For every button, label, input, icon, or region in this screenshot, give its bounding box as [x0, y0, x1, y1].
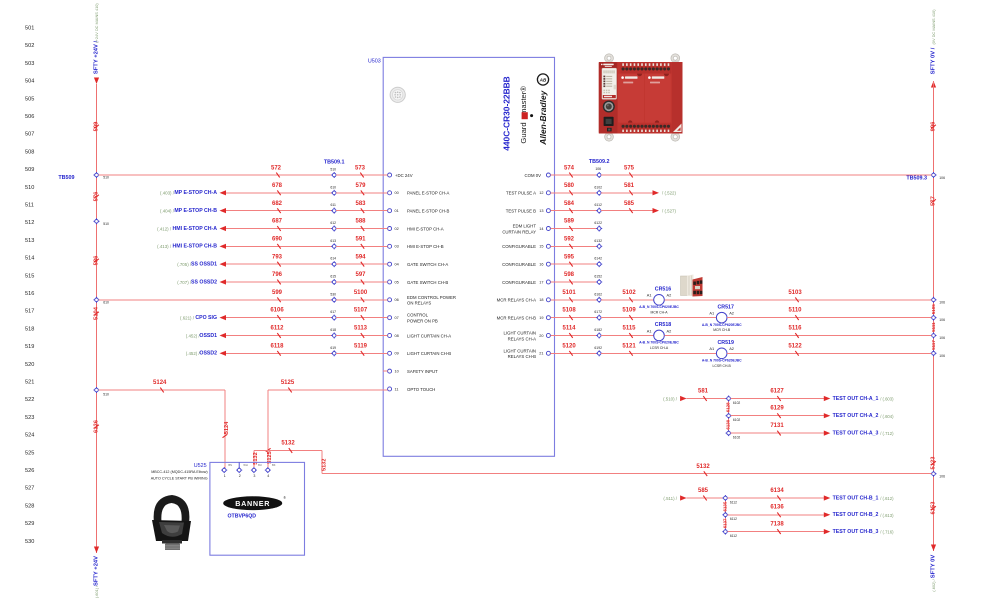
wire 5110 from coil CR517 to right rail: [727, 317, 932, 319]
svg-text:527: 527: [25, 486, 34, 492]
svg-text:LIGHT CURTAIN CH-A: LIGHT CURTAIN CH-A: [407, 333, 451, 338]
off-page destination TEST OUT CH-A_1 (.603): [824, 396, 894, 402]
wire number 6126 on left rail: [94, 419, 100, 433]
svg-text:614: 614: [330, 257, 336, 261]
terminal 612 on TB509.1: [330, 221, 337, 232]
svg-text:526: 526: [25, 468, 34, 474]
svg-text:515: 515: [25, 273, 34, 279]
svg-text:524: 524: [25, 433, 34, 439]
svg-text:793: 793: [272, 254, 283, 260]
wire 594 from terminal to U503 pin: [336, 263, 387, 265]
svg-text:516: 516: [25, 291, 34, 297]
svg-text:522: 522: [25, 397, 34, 403]
terminal 615 on TB509.1: [330, 274, 337, 285]
wire label 574: [564, 165, 575, 177]
svg-text:6172: 6172: [594, 310, 602, 314]
wire number 5123 on right rail: [931, 456, 937, 470]
off-page arrow into right rail: [931, 81, 936, 88]
svg-text:503: 503: [25, 61, 34, 67]
svg-text:(.511) /: (.511) /: [663, 496, 677, 501]
terminal 6112 (row 3): [722, 529, 737, 538]
relay coil CR519 (LCSR CH-B): [702, 340, 742, 368]
svg-text:(.707) /: (.707) /: [177, 280, 192, 285]
terminal 6102 (row 1): [726, 396, 741, 405]
off-page destination TEST OUT CH-B_3 (.716): [824, 529, 894, 535]
node: right rail junction at line 526: [931, 471, 946, 479]
svg-text:PANEL E-STOP CH-B: PANEL E-STOP CH-B: [407, 208, 449, 213]
wire label 690: [272, 236, 283, 248]
svg-text:TB509.2: TB509.2: [589, 159, 610, 165]
svg-text:585: 585: [624, 201, 635, 207]
terminal 611 on TB509.1: [330, 203, 337, 214]
svg-text:A-B_N 700S-CP620EJBC: A-B_N 700S-CP620EJBC: [639, 341, 679, 345]
svg-text:502: 502: [25, 43, 34, 49]
wire label 5102: [622, 290, 636, 302]
terminal 510 on left rail at line 512: [94, 218, 109, 226]
wire label 573: [355, 165, 366, 177]
opto-touch button U525 box: [151, 462, 305, 555]
terminal 613 on TB509.1: [330, 239, 337, 250]
pin 15 CONFIGURABLE of U503: [502, 244, 550, 249]
svg-text:2: 2: [239, 474, 241, 478]
svg-text:MP E-STOP CH-B: MP E-STOP CH-B: [174, 208, 217, 214]
svg-text:A-B_N 700S-CP620EJBC: A-B_N 700S-CP620EJBC: [702, 323, 742, 327]
svg-text:3: 3: [253, 474, 255, 478]
wire 575 from TB509.2 to right rail: [601, 174, 931, 176]
svg-text:08: 08: [395, 334, 399, 338]
wire 573 from TB509.1 to pin +DC24V: [336, 174, 387, 176]
svg-text:530: 530: [330, 292, 336, 296]
svg-text:GATE SWITCH CH-A: GATE SWITCH CH-A: [407, 262, 448, 267]
svg-text:A-B_N 700S-CP620EJBC: A-B_N 700S-CP620EJBC: [639, 305, 679, 309]
pin 21 LIGHT CURTAIN RELAYS CH-B of U503: [504, 348, 551, 359]
svg-text:5122: 5122: [788, 343, 802, 349]
svg-text:A1: A1: [709, 346, 714, 351]
svg-text:U503: U503: [368, 59, 381, 65]
wire label 579: [355, 183, 366, 195]
wire label 5124 (vertical): [223, 421, 230, 438]
svg-text:OTBVP6QD: OTBVP6QD: [228, 513, 257, 519]
svg-text:TEST OUT CH-B_2: TEST OUT CH-B_2: [833, 512, 879, 518]
svg-text:5100: 5100: [354, 290, 368, 296]
svg-text:(+24V DC MAINS 410): (+24V DC MAINS 410): [94, 3, 99, 43]
svg-text:BN: BN: [228, 463, 232, 467]
off-page destination TEST OUT CH-A_3 (.712): [824, 431, 894, 437]
wire number 5111 on right rail: [931, 322, 936, 332]
svg-text:17: 17: [539, 280, 543, 284]
svg-text:(.602) /: (.602) /: [931, 578, 936, 591]
off-page source (.511): [663, 495, 686, 501]
wire label 5101: [562, 290, 576, 302]
svg-text:5125: 5125: [281, 380, 295, 386]
wire label 793: [272, 254, 283, 266]
wire number 906 on right rail: [931, 121, 937, 131]
wire label 5121: [622, 343, 636, 355]
svg-text:5132: 5132: [321, 459, 327, 471]
wire label 5125 (vertical): [266, 448, 273, 463]
svg-text:14: 14: [539, 227, 543, 231]
wire 6136 to TEST OUT CH-B_2: [727, 514, 824, 516]
svg-text:CONTROL: CONTROL: [407, 313, 429, 318]
svg-text:584: 584: [564, 201, 575, 207]
svg-text:530: 530: [25, 539, 34, 545]
svg-text:+DC 24V: +DC 24V: [395, 173, 413, 178]
svg-text:518: 518: [25, 326, 34, 332]
svg-text:TB509.3: TB509.3: [906, 175, 927, 181]
pin 09 LIGHT CURTAIN CH-B of U503: [388, 351, 452, 356]
svg-text:09: 09: [395, 352, 399, 356]
svg-text:510: 510: [330, 168, 336, 172]
svg-text:588: 588: [355, 219, 366, 225]
wire 6127 to TEST OUT CH-A_1: [731, 398, 825, 400]
svg-text:5120: 5120: [562, 343, 576, 349]
wire 5116 from coil CR518 to right rail: [664, 334, 931, 336]
svg-text:511: 511: [25, 203, 34, 209]
photo of 440C-CR30 safety relay (product image): [599, 54, 683, 141]
wire 5132 vertical jog down: [321, 451, 323, 474]
safety relay U503 440C-CR30-22BBB outline: [368, 57, 555, 456]
pin 07 CONTROL POWER ON PB of U503: [388, 313, 438, 324]
svg-text:(.601) /: (.601) /: [94, 585, 99, 598]
pin 10 SAFETY INPUT of U503: [388, 369, 438, 374]
relay coil CR517 (MCR CH-B): [702, 304, 742, 332]
wire 5119 from terminal to U503 pin: [336, 352, 387, 354]
svg-text:RELAYS CH-B: RELAYS CH-B: [508, 354, 536, 359]
terminal 6192 on TB509.2: [594, 346, 602, 357]
svg-text:507: 507: [25, 132, 34, 138]
svg-text:(.403) /: (.403) /: [160, 191, 175, 196]
svg-text:CONFIGURABLE: CONFIGURABLE: [502, 280, 536, 285]
terminal 6122 on TB509.2: [594, 221, 602, 232]
svg-text:5108: 5108: [562, 308, 576, 314]
svg-text:678: 678: [272, 183, 283, 189]
svg-text:796: 796: [272, 272, 283, 278]
svg-text:(0V DC MAINS 410): (0V DC MAINS 410): [931, 9, 936, 45]
svg-text:TEST OUT CH-B_1: TEST OUT CH-B_1: [833, 495, 879, 501]
svg-text:POWER ON PB: POWER ON PB: [407, 319, 438, 324]
svg-text:508: 508: [25, 149, 34, 155]
svg-text:HMI E-STOP CH-B: HMI E-STOP CH-B: [407, 244, 444, 249]
svg-text:CONFIGURABLE: CONFIGURABLE: [502, 244, 536, 249]
wire label 678: [272, 183, 283, 195]
wire label 580: [564, 183, 575, 195]
svg-text:TEST PULSE A: TEST PULSE A: [506, 191, 536, 196]
wire 7131 to TEST OUT CH-A_3: [731, 432, 825, 434]
wire 598 from U503 pin to terminal 6152: [551, 281, 598, 283]
vertical tie wire: [728, 399, 730, 434]
svg-text:U525: U525: [194, 463, 207, 469]
svg-text:/ (.712): / (.712): [880, 431, 894, 436]
pin 01 PANEL E-STOP CH-B of U503: [388, 208, 450, 213]
svg-text:AB: AB: [539, 77, 547, 82]
svg-text:A1: A1: [647, 328, 652, 333]
wire label 585: [624, 201, 635, 213]
svg-text:510: 510: [103, 393, 109, 397]
svg-text:05: 05: [395, 280, 399, 284]
wire 5114 from U503 pin to terminal 6182: [551, 334, 598, 336]
svg-text:GATE SWITCH CH-B: GATE SWITCH CH-B: [407, 280, 448, 285]
svg-text:509: 509: [25, 167, 34, 173]
wire label 594: [355, 254, 366, 266]
svg-text:BU: BU: [258, 463, 262, 467]
terminal 6112 (row 1): [722, 495, 737, 504]
svg-text:A1: A1: [647, 293, 652, 298]
svg-text:6112: 6112: [730, 534, 737, 538]
wire label 581: [624, 183, 635, 195]
pin 03 HMI E-STOP CH-B of U503: [388, 244, 444, 249]
relay coil CR518 (LCSR CH-A): [639, 322, 679, 350]
wire label 7138: [770, 521, 784, 534]
svg-text:613: 613: [330, 239, 336, 243]
svg-text:589: 589: [564, 219, 575, 225]
svg-text:106: 106: [595, 167, 601, 171]
svg-text:TB509: TB509: [58, 175, 74, 181]
svg-text:BANNER: BANNER: [235, 499, 270, 508]
wire label 796: [272, 272, 283, 284]
svg-text:517: 517: [25, 309, 34, 315]
svg-text:618: 618: [330, 328, 336, 332]
wire 580 from U503 pin to terminal: [551, 192, 598, 194]
wire number 6135 (vertical tie): [722, 501, 727, 511]
svg-text:(.705) /: (.705) /: [177, 262, 192, 267]
wire 793 to terminal: [226, 263, 332, 265]
wire label 595: [564, 254, 575, 266]
off-page source MP E-STOP CH-A (.403): [160, 190, 226, 196]
off-page arrow out of right rail (bottom): [931, 545, 936, 552]
svg-text:5111: 5111: [931, 322, 936, 332]
svg-text:6128: 6128: [726, 402, 731, 412]
Allen-Bradley logo (rotated) inside U503: [537, 74, 548, 146]
svg-text:CURTAIN RELAY: CURTAIN RELAY: [502, 229, 536, 234]
wire 583 from terminal to U503 pin: [336, 210, 387, 212]
net SFTY 0V label (top right): [931, 9, 937, 75]
wire 5107 from terminal to U503 pin: [336, 317, 387, 319]
svg-text:514: 514: [25, 256, 34, 262]
wire 572 from TB509 to TB509.1: [99, 174, 333, 176]
svg-text:6112: 6112: [270, 326, 284, 332]
svg-text:6135: 6135: [722, 501, 727, 511]
wire label 5125: [281, 380, 295, 393]
svg-text:690: 690: [272, 236, 283, 242]
terminal 618 on TB509.1: [330, 328, 337, 339]
pin COM0V COM 0V of U503: [525, 173, 551, 178]
svg-text:106: 106: [939, 354, 945, 358]
pin 19 MCR RELAYS CH-B of U503: [497, 315, 551, 320]
svg-text:PANEL E-STOP CH-A: PANEL E-STOP CH-A: [407, 191, 449, 196]
off-page destination TEST OUT CH-A_2 (.604): [824, 413, 894, 419]
wire 595 from U503 pin to terminal 6142: [551, 263, 598, 265]
wire number 577 on right rail: [931, 196, 937, 206]
svg-text:106: 106: [939, 474, 945, 478]
terminal 530 on TB509.1: [330, 292, 337, 303]
wire label 584: [564, 201, 575, 213]
svg-text:5105: 5105: [931, 304, 936, 315]
wire label 5109: [622, 308, 636, 320]
off-page destination (.522): [653, 190, 677, 196]
pin 06 EDM CONTROL POWER ON RELAYS of U503: [388, 295, 456, 306]
svg-text:RELAYS CH-A: RELAYS CH-A: [508, 336, 536, 341]
svg-text:528: 528: [25, 503, 34, 509]
wire 796 to terminal: [226, 281, 332, 283]
svg-text:OSSD1: OSSD1: [199, 333, 217, 339]
pin 17 CONFIGURABLE of U503: [502, 280, 550, 285]
svg-text:7131: 7131: [770, 423, 784, 429]
wire 5102 from terminal to coil CR516: [601, 299, 654, 301]
wire number 576 on left rail: [94, 191, 100, 201]
wire number 5117 on right rail: [931, 340, 936, 350]
M12 connector icon inside U503: [390, 87, 405, 102]
net SFTY 0V label (bottom right): [931, 555, 937, 592]
svg-text:611: 611: [330, 203, 336, 207]
svg-text:LCSR CH-B: LCSR CH-B: [713, 364, 732, 368]
wire label 5103: [788, 290, 802, 302]
wire label 599: [272, 290, 283, 302]
terminal 6162 on TB509.2: [594, 292, 602, 303]
svg-text:01: 01: [395, 209, 399, 213]
svg-text:6102: 6102: [733, 435, 741, 439]
svg-text:11: 11: [395, 387, 399, 391]
svg-text:574: 574: [564, 165, 575, 171]
svg-text:106: 106: [939, 176, 945, 180]
wire label 687: [272, 219, 283, 231]
off-page source (.510): [663, 396, 687, 402]
svg-text:510: 510: [103, 176, 109, 180]
wire label 5122: [788, 343, 802, 355]
photo of opto-touch button: [152, 495, 191, 550]
wire label 575: [624, 165, 635, 177]
svg-text:510: 510: [25, 185, 34, 191]
svg-text:572: 572: [271, 165, 282, 171]
svg-text:(.621) /: (.621) /: [180, 316, 195, 321]
svg-text:440C-CR30-22BBB: 440C-CR30-22BBB: [502, 76, 512, 150]
svg-text:/ (.603): / (.603): [880, 397, 894, 402]
svg-text:(.510) /: (.510) /: [663, 396, 678, 401]
svg-text:585: 585: [698, 488, 709, 494]
net SFTY +24V label (top left): [94, 3, 100, 75]
terminal 610 on TB509.1: [330, 185, 337, 196]
wire number 5104 on left rail: [94, 306, 100, 320]
pin 05 GATE SWITCH CH-B of U503: [388, 280, 449, 285]
pin 20 LIGHT CURTAIN RELAYS CH-A of U503: [504, 331, 551, 342]
node: rail junction at line 521: [94, 387, 109, 397]
svg-text:505: 505: [25, 96, 34, 102]
wire label 5132 (jog): [281, 441, 295, 453]
svg-text:106: 106: [939, 318, 945, 322]
wire label 5116: [788, 326, 802, 338]
pin 00 PANEL E-STOP CH-A of U503: [388, 191, 450, 196]
wire number 6153 on right rail: [931, 501, 937, 515]
svg-text:CR519: CR519: [717, 340, 734, 346]
wire 690 to terminal: [226, 245, 332, 247]
svg-text:6192: 6192: [594, 346, 602, 350]
svg-text:612: 612: [330, 221, 336, 225]
svg-text:Guard: Guard: [519, 122, 528, 143]
pin 16 CONFIGURABLE of U503: [502, 262, 550, 267]
svg-text:OSSD2: OSSD2: [199, 351, 217, 357]
BANNER logo inside U525: [223, 496, 286, 510]
svg-text:6122: 6122: [594, 221, 602, 225]
wire number 6137 (vertical tie): [722, 518, 727, 528]
terminal 617 on TB509.1: [330, 310, 337, 321]
wire 6134 to TEST OUT CH-B_1: [727, 497, 824, 499]
svg-text:610: 610: [330, 185, 336, 189]
svg-text:/ (.604): / (.604): [880, 414, 894, 419]
off-page arrow out of left rail (bottom): [94, 547, 99, 554]
wire label 5114: [562, 326, 576, 338]
wire 585 into terminal: [687, 497, 724, 499]
svg-text:A-B_N 700S-CP620EJBC: A-B_N 700S-CP620EJBC: [702, 359, 742, 363]
wire 5120 from U503 pin to terminal 6192: [551, 352, 598, 354]
wire label 6127: [770, 388, 784, 401]
terminal 6102 (row 3): [726, 430, 741, 439]
svg-text:19: 19: [539, 316, 543, 320]
wire left +24V rail: [96, 84, 98, 553]
svg-text:12: 12: [539, 191, 543, 195]
terminal 6112 (row 2): [722, 512, 737, 521]
svg-text:581: 581: [698, 388, 709, 394]
svg-text:591: 591: [355, 236, 366, 242]
wire 584 from U503 pin to terminal: [551, 210, 598, 212]
wire label 598: [564, 272, 575, 284]
wire 579 from terminal to U503 pin: [336, 192, 387, 194]
wire label 589: [564, 219, 575, 231]
svg-text:6134: 6134: [770, 488, 784, 494]
pin 13 TEST PULSE B of U503: [506, 208, 551, 213]
svg-text:5102: 5102: [622, 290, 636, 296]
terminal 619 on TB509.1: [330, 346, 337, 357]
wire 687 to terminal: [226, 227, 332, 229]
pin +DC24V +DC 24V of U503: [388, 173, 413, 178]
svg-text:5110: 5110: [788, 308, 802, 314]
terminal TB509 on left rail at line 509: [58, 172, 109, 181]
svg-text:6142: 6142: [594, 257, 602, 261]
svg-text:HMI E-STOP CH-A: HMI E-STOP CH-A: [173, 226, 218, 232]
svg-text:6137: 6137: [722, 518, 727, 528]
pin 04 GATE SWITCH CH-A of U503: [388, 262, 449, 267]
svg-text:(.452) /: (.452) /: [186, 351, 201, 356]
svg-text:5132: 5132: [696, 464, 710, 470]
pin 1 of U525: [221, 463, 232, 478]
wire label 5110: [788, 308, 802, 320]
svg-text:LIGHT CURTAIN CH-B: LIGHT CURTAIN CH-B: [407, 351, 451, 356]
wire label 5107: [354, 308, 368, 320]
wire label 6106: [270, 308, 284, 320]
wire 7138 to TEST OUT CH-B_3: [727, 531, 824, 533]
svg-text:523: 523: [25, 415, 34, 421]
svg-text:529: 529: [25, 521, 34, 527]
svg-text:580: 580: [564, 183, 575, 189]
wire number 509 on left rail: [94, 121, 100, 131]
svg-text:SFTY 0V /: SFTY 0V /: [931, 47, 937, 74]
svg-text:5132: 5132: [281, 441, 295, 447]
svg-text:597: 597: [355, 272, 366, 278]
svg-text:LIGHT CURTAIN: LIGHT CURTAIN: [504, 331, 536, 336]
wire label 5132 (long run): [696, 464, 710, 476]
svg-text:519: 519: [25, 344, 34, 350]
svg-text:5124: 5124: [224, 421, 230, 434]
terminal 614 on TB509.1: [330, 257, 337, 268]
svg-text:6106: 6106: [270, 308, 284, 314]
net SFTY +24V label (bottom left): [94, 556, 100, 598]
svg-text:575: 575: [624, 165, 635, 171]
svg-text:/ (.716): / (.716): [880, 530, 894, 535]
pin 18 MCR RELAYS CH-A of U503: [497, 298, 551, 303]
svg-text:SAFETY INPUT: SAFETY INPUT: [407, 369, 438, 374]
wire label 588: [355, 219, 366, 231]
svg-text:A2: A2: [729, 346, 734, 351]
terminal 6152 on TB509.2: [594, 274, 602, 285]
svg-text:/ (.612): / (.612): [880, 496, 894, 501]
